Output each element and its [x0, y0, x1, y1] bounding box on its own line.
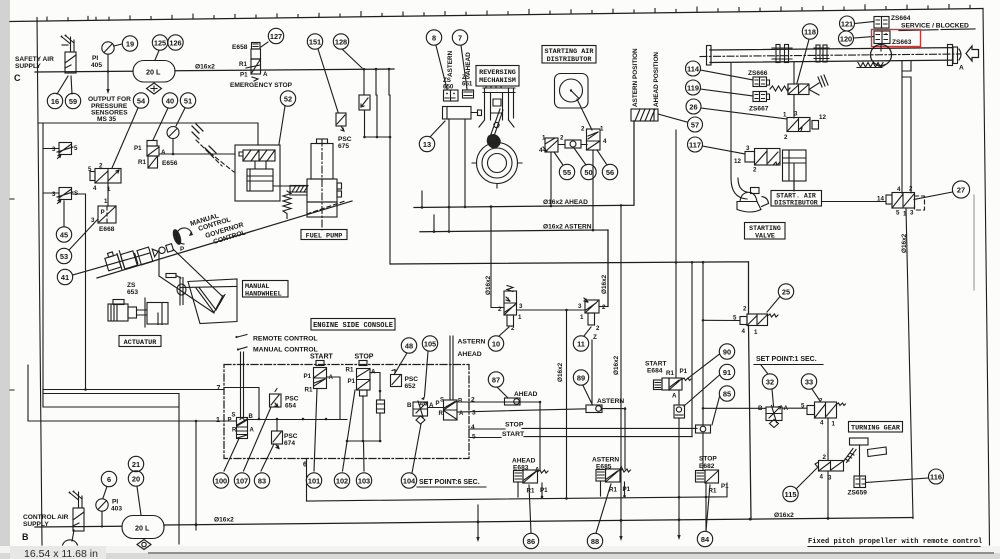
svg-text:ASTERN: ASTERN	[597, 398, 624, 405]
svg-text:STARTING: STARTING	[749, 225, 781, 232]
fuel pump centerline	[321, 139, 323, 230]
svg-text:R1: R1	[527, 488, 535, 495]
wire E682 feed down	[703, 433, 706, 531]
svg-text:652: 652	[405, 383, 416, 390]
svg-text:SUPPLY: SUPPLY	[15, 63, 41, 70]
regulator valve upper (3-5)	[59, 143, 72, 155]
svg-text:16: 16	[51, 97, 59, 106]
circle 8	[426, 30, 441, 45]
svg-text:A: A	[250, 428, 255, 434]
svg-text:DISTRIBUTOR: DISTRIBUTOR	[774, 200, 818, 207]
leader circle 20 to tank	[137, 487, 141, 516]
svg-text:2: 2	[753, 167, 757, 174]
svg-text:Fixed pitch propeller with rem: Fixed pitch propeller with remote contro…	[808, 538, 982, 546]
console dashed enclosure	[224, 365, 469, 459]
governor linkage elements	[104, 235, 175, 275]
leader circle 52	[279, 106, 285, 144]
svg-text:P1: P1	[680, 368, 688, 375]
circle 101	[306, 473, 321, 488]
svg-text:STOP: STOP	[699, 456, 717, 463]
wire linking valves 10 and 11	[517, 309, 586, 311]
circle 25	[778, 284, 793, 299]
control block 52 outer box	[235, 145, 280, 201]
svg-text:ENGINE SIDE CONSOLE: ENGINE SIDE CONSOLE	[313, 322, 393, 330]
svg-text:126: 126	[169, 39, 181, 48]
svg-text:151: 151	[309, 38, 321, 47]
svg-text:E684: E684	[647, 368, 663, 375]
svg-text:STOP: STOP	[505, 422, 524, 429]
leader circle 54 to E668 valve	[112, 108, 138, 168]
svg-text:2: 2	[511, 325, 515, 332]
wire START A-port to bus	[327, 377, 341, 419]
svg-text:3: 3	[578, 303, 582, 310]
leader START to circle 101	[314, 389, 317, 471]
svg-text:51: 51	[184, 97, 192, 106]
leader 90 to E684	[687, 354, 720, 379]
wire: left riser loops	[43, 389, 224, 391]
ZS664 switch	[874, 17, 889, 29]
svg-text:E668: E668	[99, 226, 115, 233]
leader 11	[584, 327, 591, 336]
svg-text:3: 3	[52, 146, 56, 153]
wire verticals mid-right	[675, 130, 677, 378]
circle 86	[523, 533, 538, 548]
red highlight box around ZS663	[872, 30, 921, 47]
svg-text:654: 654	[285, 403, 296, 410]
svg-text:40: 40	[166, 97, 174, 106]
leader circle 51	[176, 108, 185, 126]
circle 52	[280, 91, 295, 106]
output stub for pressure sensors	[107, 72, 109, 91]
svg-text:87: 87	[492, 376, 500, 385]
svg-text:A: A	[161, 149, 166, 156]
leader to circle 103	[363, 441, 366, 471]
svg-text:C: C	[14, 73, 21, 83]
gear engage linkage	[844, 449, 857, 463]
circle 59	[65, 93, 80, 108]
position cylinder 13	[443, 107, 472, 120]
right frame border	[983, 9, 990, 546]
svg-text:84: 84	[701, 535, 710, 544]
svg-text:R: R	[439, 411, 444, 417]
leader 118 down to pilot valve	[797, 40, 809, 84]
air receiver tank 20L row C	[133, 61, 175, 83]
svg-text:A: A	[419, 401, 424, 408]
circle 87	[488, 372, 503, 387]
svg-text:674: 674	[284, 440, 295, 447]
wire: control air supply line B	[35, 526, 164, 527]
circle 91	[719, 364, 734, 379]
wire actuator down	[793, 181, 795, 191]
svg-text:2: 2	[498, 306, 502, 313]
wire line2 down to E683	[539, 402, 541, 470]
manual handwheel disc	[180, 277, 183, 305]
leader to circles 125/126	[155, 51, 159, 61]
leader circle 40 to E656	[153, 108, 168, 140]
manual handwheel label box	[243, 281, 289, 298]
svg-text:3: 3	[910, 210, 914, 217]
leader to circle 127	[261, 42, 268, 47]
wire from regulator to lower loop	[72, 194, 86, 389]
circle 121	[840, 16, 855, 31]
svg-text:Ø16x2 ASTERN: Ø16x2 ASTERN	[543, 224, 592, 231]
svg-text:ZS659: ZS659	[848, 490, 868, 497]
svg-text:117: 117	[689, 141, 701, 150]
svg-text:Ø16x2: Ø16x2	[214, 517, 234, 524]
fuel pump label box	[301, 230, 347, 240]
svg-text:PSC: PSC	[338, 136, 352, 143]
leader 104 to throttle	[412, 424, 421, 473]
leader 121 to ZS664	[855, 22, 875, 24]
svg-text:101: 101	[308, 477, 320, 486]
svg-text:53: 53	[60, 252, 68, 261]
wire E684 down	[678, 390, 680, 405]
circle 102	[334, 473, 349, 488]
svg-text:MS 35: MS 35	[97, 116, 116, 123]
turning gear motor block	[850, 438, 869, 445]
svg-text:P1: P1	[134, 145, 142, 152]
circle 45	[56, 227, 71, 242]
svg-text:OUTPUT FOR: OUTPUT FOR	[88, 96, 131, 103]
svg-text:27: 27	[957, 186, 965, 195]
console lower bus	[347, 440, 381, 442]
wire valve25 to stop riser	[703, 319, 740, 321]
svg-text:ZS664: ZS664	[891, 15, 911, 22]
air start manifold pipe	[710, 48, 953, 63]
rack zigzag	[857, 63, 883, 68]
circle 117	[688, 137, 703, 152]
svg-text:E656: E656	[162, 160, 178, 167]
svg-text:19: 19	[126, 40, 134, 49]
leaders to circles 55 50 56	[554, 148, 607, 165]
svg-text:START: START	[502, 431, 525, 438]
leader 10	[499, 327, 509, 336]
leader 151 to PSC675	[318, 49, 338, 112]
svg-text:1: 1	[600, 126, 604, 133]
svg-text:ASTERN: ASTERN	[458, 339, 486, 346]
svg-text:653: 653	[127, 289, 138, 296]
svg-text:105: 105	[424, 340, 436, 349]
stubs above ahead line	[422, 191, 465, 207]
gauge PI 403	[96, 499, 108, 511]
circle 119	[686, 80, 701, 95]
svg-text:118: 118	[804, 28, 816, 37]
svg-text:ZS667: ZS667	[749, 106, 769, 113]
wire: stub to regulator 2	[43, 192, 59, 194]
svg-text:128: 128	[335, 38, 347, 47]
leader circle 89	[583, 386, 592, 405]
svg-text:START: START	[310, 354, 334, 361]
ZS659 switch	[854, 476, 866, 488]
handwheel bracket frame	[188, 279, 237, 324]
start air distributor actuator cylinder	[783, 150, 807, 181]
ZS651 limit switch	[463, 90, 474, 98]
svg-text:R1: R1	[305, 387, 313, 394]
svg-text:25: 25	[782, 288, 790, 297]
svg-text:100: 100	[215, 477, 227, 486]
svg-text:26: 26	[689, 103, 697, 112]
circle 53	[56, 248, 71, 263]
fork lever	[809, 83, 819, 95]
wire stop riser to throttle	[703, 407, 766, 409]
svg-text:3: 3	[519, 303, 523, 310]
ZS667 switch	[753, 92, 767, 102]
viewer left grey margin	[0, 0, 10, 559]
leader 85	[712, 397, 720, 426]
svg-text:52: 52	[284, 95, 292, 104]
leader 114 to ZS666	[701, 70, 754, 80]
svg-text:4: 4	[820, 474, 824, 481]
leader 26 to interlock valve	[701, 108, 787, 119]
fuel pump body	[317, 139, 328, 144]
svg-text:Ø16x2: Ø16x2	[601, 274, 608, 294]
svg-text:AHEAD: AHEAD	[514, 391, 538, 398]
svg-text:103: 103	[358, 477, 370, 486]
svg-text:125: 125	[154, 39, 166, 48]
PSC 675 pressure switch	[336, 113, 346, 126]
reversing mechanism body	[483, 88, 515, 120]
svg-text:P: P	[180, 246, 184, 253]
svg-text:B: B	[22, 532, 29, 542]
circle 19	[122, 36, 137, 51]
leader PSC674 to circle 83	[261, 444, 274, 471]
svg-text:5: 5	[896, 210, 900, 217]
svg-text:5: 5	[801, 403, 805, 410]
status size box	[10, 546, 106, 559]
leader 32	[761, 365, 768, 374]
wire valve 27 down	[906, 208, 913, 519]
svg-text:A: A	[959, 65, 964, 72]
svg-text:2: 2	[743, 306, 747, 313]
spring link to governor	[283, 191, 291, 219]
leader E685 to circle 88	[596, 484, 611, 533]
wire E685 R1 down	[600, 481, 602, 496]
leader STOP to circle 102	[343, 390, 356, 471]
wire: bottom main line	[164, 518, 913, 526]
svg-text:7: 7	[217, 385, 221, 392]
manual override dash-dot links	[192, 124, 203, 139]
svg-text:1: 1	[518, 314, 522, 321]
gauge 51	[167, 127, 179, 139]
svg-text:32: 32	[766, 378, 774, 387]
svg-text:Z: Z	[593, 334, 597, 341]
pipe centerline	[700, 54, 960, 57]
wire cylinder to astern line	[448, 119, 450, 231]
wire drop from pipe to starting valve	[730, 63, 732, 178]
circle 57	[688, 117, 703, 132]
circle 11	[573, 336, 588, 351]
wire down from valve junction	[566, 310, 568, 497]
wire: ahead line	[414, 121, 634, 208]
svg-text:119: 119	[687, 84, 699, 93]
svg-text:1: 1	[104, 198, 108, 205]
turning gear sliding block	[868, 447, 887, 457]
leader circle 45	[63, 201, 65, 227]
svg-text:AHEAD: AHEAD	[512, 458, 536, 465]
svg-text:Ø16x2: Ø16x2	[557, 362, 564, 382]
svg-text:Ø16x2: Ø16x2	[774, 512, 794, 519]
svg-text:116: 116	[930, 473, 942, 482]
regulator valve lower (3-S)	[59, 188, 72, 200]
svg-text:AHEAD: AHEAD	[465, 52, 472, 75]
circle 100	[213, 473, 228, 488]
svg-text:5: 5	[74, 145, 78, 152]
leader valve100 to circle 100	[224, 439, 239, 472]
circle 50	[581, 164, 596, 179]
circle 114	[686, 61, 701, 76]
viewer bottom grey band	[0, 546, 1000, 559]
svg-text:EMERGENCY STOP: EMERGENCY STOP	[230, 82, 293, 89]
remote control selector	[235, 336, 237, 338]
leader to circle 59	[71, 76, 72, 94]
wire: stub to regulator 1	[43, 148, 59, 150]
svg-text:88: 88	[591, 537, 599, 546]
svg-text:ZS: ZS	[127, 282, 136, 289]
svg-text:21: 21	[132, 460, 140, 469]
circle 127	[268, 28, 283, 43]
leader PSC652 to circle 48	[395, 353, 407, 373]
circle 56	[602, 164, 617, 179]
shuttle check block	[377, 400, 385, 413]
svg-text:STOP: STOP	[355, 354, 374, 361]
svg-text:59: 59	[69, 97, 77, 106]
svg-text:20 L: 20 L	[135, 524, 150, 533]
svg-text:VALVE: VALVE	[755, 233, 775, 240]
wire E683 R1 down	[517, 482, 519, 497]
svg-text:55: 55	[563, 168, 571, 177]
leader circle 53 to E668	[69, 219, 98, 250]
svg-text:6: 6	[107, 475, 111, 484]
circle 107	[234, 473, 249, 488]
valve 16: air treatment unit on supply line	[65, 52, 76, 73]
svg-text:A: A	[263, 71, 268, 78]
governor main control rod diagonal	[97, 201, 352, 278]
wire: drops join bus	[365, 95, 391, 264]
svg-text:20: 20	[132, 475, 140, 484]
circle 104	[401, 473, 416, 488]
svg-text:8: 8	[432, 34, 436, 43]
svg-text:P1: P1	[348, 378, 356, 385]
wire throttle to valve 33	[782, 407, 807, 409]
svg-text:83: 83	[258, 477, 266, 486]
svg-text:2: 2	[602, 304, 606, 311]
svg-text:33: 33	[805, 378, 813, 387]
valve E668 pilot 5/2	[90, 172, 95, 181]
svg-text:R1: R1	[239, 61, 247, 68]
svg-text:4: 4	[539, 147, 543, 154]
leader circle 87	[497, 387, 508, 398]
pipe right end caps	[948, 45, 953, 66]
svg-text:48: 48	[405, 342, 413, 351]
wire E656 A-port to box 52	[159, 153, 235, 155]
wire STOP down	[362, 396, 364, 441]
leader 33	[812, 389, 820, 401]
wire: main right bus from sensors	[390, 262, 751, 520]
svg-text:12: 12	[819, 114, 826, 121]
pipe mid flange	[816, 45, 820, 62]
leader circle 6	[103, 487, 107, 499]
svg-text:ZS666: ZS666	[748, 70, 768, 77]
svg-text:STARTING AIR: STARTING AIR	[545, 48, 595, 56]
svg-text:1: 1	[783, 112, 787, 119]
selector rods right pair	[450, 336, 453, 400]
svg-text:7: 7	[458, 34, 462, 43]
leader E682 to circle 84	[706, 485, 710, 531]
wire to PSC674	[276, 419, 278, 431]
leader distributor to pilot valves	[577, 99, 592, 130]
start air distributor label box	[771, 191, 822, 207]
blocking pilot valve	[788, 84, 809, 95]
leader E683 to circle 86	[529, 485, 531, 533]
svg-text:AHEAD POSITION: AHEAD POSITION	[653, 52, 660, 107]
svg-text:85: 85	[723, 390, 731, 399]
drain diamond under tank	[147, 83, 162, 94]
wire cylinder to ahead line	[464, 119, 466, 207]
leader to circle 57	[658, 114, 687, 122]
leader 115 to valve 113	[797, 467, 819, 489]
svg-text:3: 3	[52, 191, 56, 198]
circle 120	[839, 31, 854, 46]
svg-text:SET POINT:1 SEC.: SET POINT:1 SEC.	[756, 356, 817, 363]
svg-text:Ø16x2 AHEAD: Ø16x2 AHEAD	[543, 199, 588, 206]
circle 88	[587, 533, 602, 548]
svg-text:MECHANISM: MECHANISM	[479, 77, 516, 85]
leader 117	[703, 146, 746, 154]
handwheel crank	[166, 274, 176, 278]
svg-text:HANDWHEEL: HANDWHEEL	[245, 291, 282, 299]
svg-text:16.54 x 11.68 in: 16.54 x 11.68 in	[24, 548, 98, 559]
circle 54	[133, 93, 148, 108]
svg-text:B: B	[249, 414, 254, 420]
barring wheel on pipe	[871, 45, 892, 66]
reversing mechanism label box	[476, 66, 519, 87]
svg-text:AHEAD: AHEAD	[458, 351, 482, 358]
svg-text:S: S	[232, 413, 236, 419]
svg-text:B: B	[407, 402, 412, 409]
svg-text:12: 12	[734, 158, 741, 165]
leader circle 7 to ZS651	[461, 46, 467, 90]
ZS666 switch	[753, 77, 767, 87]
svg-text:45: 45	[60, 231, 68, 240]
actuator motor	[113, 300, 124, 305]
wire: left distribution bus	[38, 123, 258, 393]
circle 20	[128, 471, 143, 486]
svg-text:57: 57	[691, 121, 699, 130]
wire: astern line	[420, 230, 608, 306]
svg-text:1: 1	[832, 421, 836, 428]
svg-text:675: 675	[338, 143, 349, 150]
wire distributor to relay valve 27	[822, 201, 887, 203]
circle 89	[573, 370, 588, 385]
svg-text:2: 2	[581, 126, 585, 133]
wire STOP A-port right	[370, 373, 380, 401]
drain diamond under tank B	[137, 540, 151, 550]
reversing mechanism wheel	[477, 143, 518, 184]
circle 103	[356, 473, 371, 488]
circle 6	[101, 471, 116, 486]
valve 11 (astern interlock)	[585, 300, 599, 313]
svg-text:104: 104	[403, 477, 416, 486]
svg-text:2: 2	[819, 398, 823, 405]
circle 10	[488, 336, 503, 351]
svg-text:127: 127	[270, 32, 282, 41]
leader circle 8 to ZS650	[436, 46, 447, 90]
actuator label box	[119, 336, 161, 347]
svg-text:2: 2	[560, 135, 564, 142]
svg-text:P: P	[101, 209, 105, 216]
distributor body	[555, 74, 589, 109]
svg-text:R1: R1	[346, 367, 354, 374]
